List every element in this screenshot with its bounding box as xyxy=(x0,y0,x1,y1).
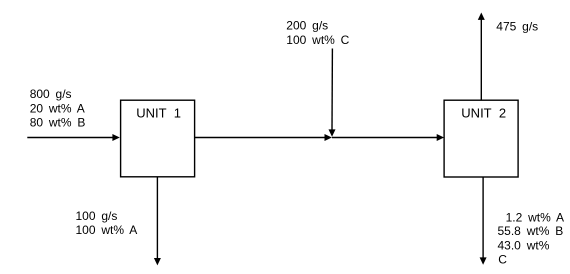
svg-text:100 wt% A: 100 wt% A xyxy=(76,223,138,237)
unit 1 box xyxy=(121,100,195,177)
unit 2 box xyxy=(444,100,518,177)
svg-text:475 g/s: 475 g/s xyxy=(496,20,538,34)
svg-text:800 g/s: 800 g/s xyxy=(30,87,72,101)
wire top product stream of unit 2 xyxy=(480,20,482,101)
svg-text:100 g/s: 100 g/s xyxy=(76,209,118,223)
svg-text:20 wt% A: 20 wt% A xyxy=(30,101,85,115)
svg-text:43.0 wt%: 43.0 wt% xyxy=(498,239,550,253)
svg-text:UNIT 1: UNIT 1 xyxy=(136,106,181,121)
svg-text:C: C xyxy=(498,253,507,267)
wire unit 1 to junction xyxy=(195,137,325,139)
svg-text:55.8 wt% B: 55.8 wt% B xyxy=(498,224,564,238)
wire feed stream 200 g/s into junction xyxy=(331,49,333,131)
svg-text:UNIT 2: UNIT 2 xyxy=(461,106,506,121)
wire junction to unit 2 xyxy=(332,137,437,139)
svg-text:100 wt% C: 100 wt% C xyxy=(286,33,349,47)
svg-text:1.2 wt% A: 1.2 wt% A xyxy=(506,210,564,224)
svg-text:80 wt% B: 80 wt% B xyxy=(30,116,86,130)
wire bottom product stream of unit 1 xyxy=(156,177,158,259)
wire bottom product stream of unit 2 xyxy=(482,177,484,258)
svg-text:200 g/s: 200 g/s xyxy=(286,19,328,33)
wire feed stream into unit 1 xyxy=(27,137,113,139)
